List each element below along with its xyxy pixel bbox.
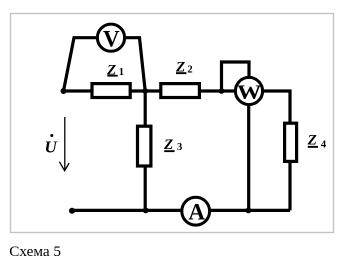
svg-text:W: W (237, 80, 262, 103)
node: left top (61, 88, 67, 94)
voltmeter V1 (97, 24, 124, 51)
wire: Z3 branch vertical (144, 91, 147, 210)
svg-text:U: U (45, 137, 58, 156)
wire: wattmeter right lead + right branch down (262, 91, 290, 124)
svg-text:V: V (103, 26, 120, 51)
svg-text:1: 1 (119, 67, 124, 78)
wire: wattmeter voltage-coil loop (222, 62, 250, 91)
svg-text:3: 3 (177, 142, 182, 153)
resistor Z2 (161, 84, 200, 98)
label Z3 (163, 137, 182, 153)
label Z2 (175, 60, 193, 76)
node: wattmeter bottom junction (246, 208, 252, 214)
wire: main top horizontal (64, 89, 237, 92)
node: bottom left end (69, 208, 75, 214)
svg-text:4: 4 (321, 140, 327, 151)
svg-text:A: A (188, 199, 205, 224)
wire: wattmeter bottom lead (247, 104, 250, 210)
resistor Z3 (138, 126, 151, 166)
wire: voltmeter left lead (64, 38, 98, 91)
wattmeter W (235, 77, 262, 104)
label Z4 (307, 133, 327, 151)
svg-text:Схема 5: Схема 5 (9, 243, 61, 260)
resistor Z1 (92, 84, 130, 98)
label Z1 (106, 62, 124, 78)
wire: bottom horizontal (72, 209, 290, 212)
wire: right branch below Z4 (288, 162, 291, 210)
label U (source voltage phasor) (45, 134, 58, 156)
ammeter A (182, 197, 210, 225)
svg-text:2: 2 (187, 64, 192, 75)
wire: voltmeter right lead (125, 38, 146, 91)
node: wattmeter input junction (219, 88, 225, 94)
arrow: U direction (59, 117, 69, 171)
resistor Z4 (285, 123, 297, 161)
node: Z1-Z2 junction (142, 88, 148, 94)
node: Z3 bottom junction (143, 208, 149, 214)
